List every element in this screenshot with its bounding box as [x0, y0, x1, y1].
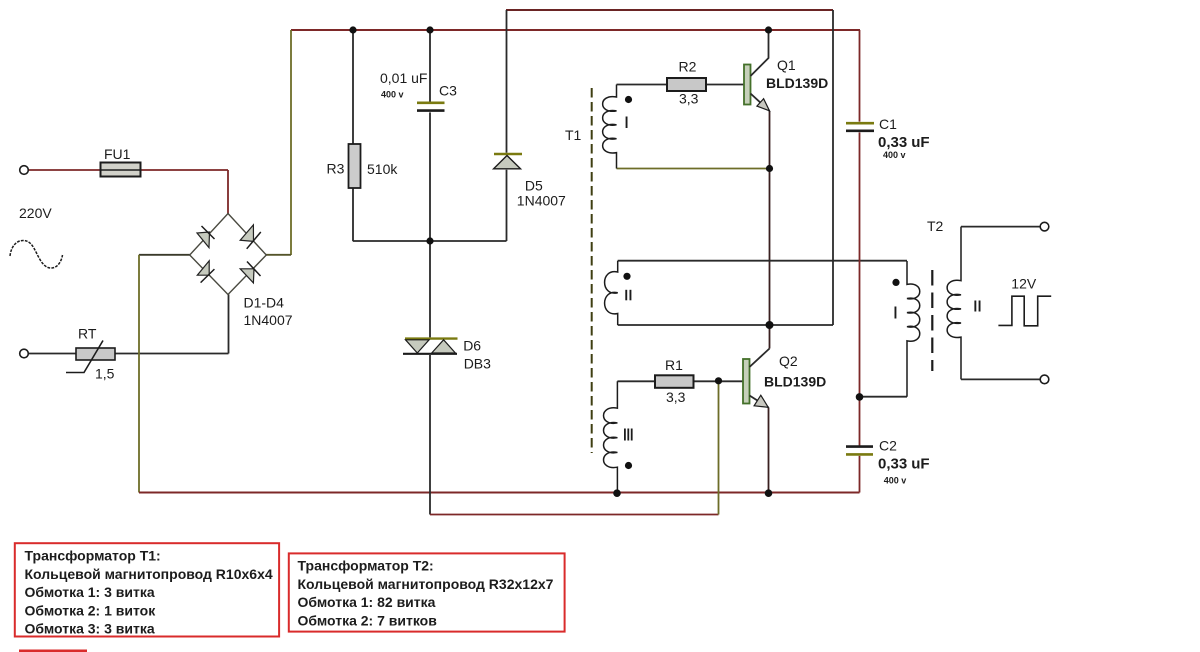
junction node x430 y30 [426, 26, 433, 33]
wire D6 lower vertical x=430 [429, 355, 431, 515]
terminal output top [1040, 222, 1049, 231]
resistor R3 [327, 144, 399, 188]
transformer T2 core dashed line [931, 270, 933, 371]
transistor Q2 [743, 349, 826, 408]
wire Q2 emitter vertical [768, 408, 770, 494]
wire vertical x=833 from rail2 to midpoint [832, 10, 834, 325]
T2 primary winding I [892, 261, 919, 397]
svg-text:Трансформатор Т2:: Трансформатор Т2: [298, 558, 434, 574]
wire node row y=241 [353, 240, 507, 242]
svg-text:Q1: Q1 [777, 57, 796, 73]
svg-text:C1: C1 [879, 116, 897, 132]
wire top rail DC+ y=30 [291, 29, 860, 31]
svg-text:BLD139D: BLD139D [766, 75, 828, 91]
svg-text:Обмотка 1: 82 витка: Обмотка 1: 82 витка [298, 594, 436, 610]
wire C1C2 vertical x=859.5 [859, 30, 861, 446]
wire winding I bottom olive y=168.5 [617, 168, 770, 170]
svg-text:DB3: DB3 [464, 356, 491, 372]
wire C2 bottom to rail [859, 456, 861, 493]
wire D5 branch vertical x=506.5 [506, 10, 508, 241]
junction node x617 y493 [613, 489, 621, 497]
svg-text:BLD139D: BLD139D [764, 374, 826, 390]
junction node x769 y493 [765, 489, 773, 497]
wire olive vertical x=291 bridge to rail [290, 30, 292, 255]
svg-text:3,3: 3,3 [666, 389, 686, 405]
diac D6 [403, 338, 491, 372]
junction node x430 y241 [426, 237, 433, 244]
junction node x718.5 y380.5 [715, 377, 722, 384]
svg-text:T2: T2 [927, 218, 944, 234]
svg-text:0,01 uF: 0,01 uF [380, 70, 427, 86]
svg-text:1N4007: 1N4007 [244, 312, 293, 328]
svg-text:220V: 220V [19, 205, 52, 221]
sine wave symbol [10, 241, 63, 269]
wire R3 branch vertical x=353 [352, 30, 354, 241]
diode D2 top-right [240, 225, 261, 249]
wire C3 branch vertical x=430 [429, 30, 431, 337]
wire olive vertical x=718.5 base feed [718, 381, 720, 515]
note box T1 [15, 543, 279, 637]
svg-text:C3: C3 [439, 83, 457, 99]
junction node x769.5 y168.5 [766, 165, 773, 172]
diode D4 bottom-right [240, 262, 260, 283]
svg-text:Q2: Q2 [779, 353, 798, 369]
svg-text:510k: 510k [367, 161, 398, 177]
terminal input bottom 220V [20, 349, 29, 358]
wire winding I to R2 to Q1 base y=84.5 [617, 84, 745, 86]
partial red box edge bottom [19, 650, 87, 652]
capacitor C3 [380, 70, 457, 111]
wire bridge right corner to x=291 [266, 254, 291, 256]
junction node x353 y30 [349, 26, 356, 33]
svg-text:12V: 12V [1011, 276, 1037, 292]
wire bridge left corner to x=139 [139, 254, 190, 256]
wire horizontal y=325 winding II bottom to x=833 [618, 324, 833, 326]
diode D1 top-left [197, 226, 215, 248]
T1 winding II [605, 261, 632, 325]
wire top rail2 y=10 [506, 9, 833, 11]
terminal input top 220V [20, 166, 29, 175]
svg-text:D1-D4: D1-D4 [244, 295, 285, 311]
wire RT to bridge bottom vertical [115, 295, 229, 354]
wire input terminal to fuse [28, 169, 100, 171]
svg-text:Кольцевой магнитопровод R10x6x: Кольцевой магнитопровод R10x6x4 [25, 566, 273, 582]
svg-text:400 v: 400 v [381, 90, 404, 100]
svg-text:400 v: 400 v [884, 476, 907, 486]
svg-text:0,33uF: 0,33uF [878, 456, 930, 473]
note box T2 [289, 553, 565, 631]
svg-text:Трансформатор Т1:: Трансформатор Т1: [25, 548, 161, 564]
capacitor C2 [846, 438, 930, 486]
wire T2 secondary bottom to terminal [961, 378, 1040, 380]
svg-text:C2: C2 [879, 438, 897, 454]
svg-text:3,3: 3,3 [679, 91, 699, 107]
fuse FU1 [101, 146, 141, 177]
svg-text:Обмотка 2: 1 виток: Обмотка 2: 1 виток [25, 602, 157, 618]
resistor R2 [667, 59, 706, 107]
wire winding II top to T2 primary y=260.7 [618, 260, 907, 262]
transformer T1 core dashed line [591, 88, 593, 453]
wire fuse to bridge top [141, 170, 229, 214]
svg-text:R2: R2 [679, 59, 697, 75]
svg-text:FU1: FU1 [104, 146, 131, 162]
square wave symbol [998, 296, 1051, 326]
svg-text:Обмотка 2: 7 витков: Обмотка 2: 7 витков [298, 612, 438, 628]
diode D3 bottom-left [197, 261, 214, 283]
T1 winding III [604, 381, 633, 493]
svg-text:Обмотка 1: 3 витка: Обмотка 1: 3 витка [25, 584, 155, 600]
wire T2 secondary top to terminal [961, 226, 1040, 228]
svg-text:RT: RT [78, 326, 97, 342]
wire mid vertical x=769.5 Q1 emitter to Q2 collector [769, 111, 771, 349]
svg-text:400 v: 400 v [883, 150, 906, 160]
junction node x768 y30 [765, 26, 772, 33]
svg-text:Кольцевой магнитопровод R32x12: Кольцевой магнитопровод R32x12x7 [298, 576, 554, 592]
resistor R1 [655, 357, 694, 405]
svg-text:1N4007: 1N4007 [517, 193, 566, 209]
transistor Q1 [744, 30, 828, 111]
svg-text:Обмотка 3: 3 витка: Обмотка 3: 3 витка [25, 621, 155, 637]
wire R1 row y=381 [617, 380, 743, 382]
diode bridge D1-D4 frame [190, 214, 267, 295]
diode D5 [494, 154, 566, 209]
svg-text:D6: D6 [463, 338, 481, 354]
svg-text:T1: T1 [565, 127, 582, 143]
thermistor RT [66, 326, 115, 382]
wire bottom rail y=492.5 [139, 492, 860, 494]
svg-text:R1: R1 [665, 357, 683, 373]
T2 secondary winding II [947, 227, 980, 380]
junction node x859.5 y397 [856, 393, 864, 401]
wire maroon y=514.5 D6 to base feed [430, 514, 719, 516]
svg-text:R3: R3 [327, 161, 345, 177]
capacitor C1 [846, 116, 930, 160]
T1 winding I [603, 85, 632, 169]
terminal output bottom [1040, 375, 1049, 384]
svg-text:1,5: 1,5 [95, 366, 115, 382]
svg-text:D5: D5 [525, 178, 543, 194]
junction node x769.5 y325 [766, 321, 774, 329]
wire olive vertical x=139 [138, 255, 140, 493]
svg-text:0,33uF: 0,33uF [878, 134, 930, 151]
wire RT terminal lead [28, 353, 76, 355]
wire T2 primary bottom y=396.7 [860, 396, 908, 398]
